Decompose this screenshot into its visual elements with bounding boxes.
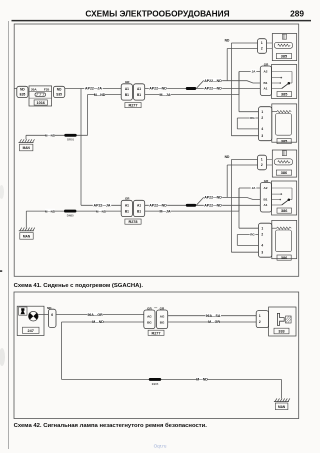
svg-text:M—ND: M—ND <box>92 320 104 324</box>
svg-text:AP22—ND: AP22—ND <box>204 203 222 207</box>
svg-text:2: 2 <box>261 163 263 167</box>
svg-text:B1: B1 <box>137 210 141 214</box>
node AP22 branch vertical to R278 <box>80 89 82 206</box>
left page margin line <box>8 21 10 449</box>
svg-text:M—JA: M—JA <box>159 209 170 213</box>
earth wire M-ND lower into R278 B1 <box>26 210 121 212</box>
heating element unit 385 body <box>272 34 296 61</box>
buckle switch pin box <box>256 311 268 328</box>
svg-text:Схема 41. Сиденье с подогревом: Схема 41. Сиденье с подогревом (SGACHA). <box>14 283 144 289</box>
mat icon <box>282 151 286 156</box>
wire AP22-ND from R277 A1 <box>145 88 261 90</box>
thermo element 385 pin box <box>259 107 272 141</box>
cluster label 247 <box>23 327 40 333</box>
svg-text:MAN: MAN <box>23 146 31 150</box>
heating element unit 385 pin box <box>258 39 267 54</box>
svg-text:СХЕМЫ ЭЛЕКТРООБОРУДОВАНИЯ: СХЕМЫ ЭЛЕКТРООБОРУДОВАНИЯ <box>85 8 229 18</box>
thermo interior resistor <box>276 114 292 136</box>
thermo interior resistor <box>276 230 292 252</box>
vertical ND element to thermo pin 3 <box>230 160 232 253</box>
svg-text:M—ND: M—ND <box>96 209 107 213</box>
wire heating element 385 pin 2 <box>227 48 257 50</box>
svg-text:RG: RG <box>250 233 255 237</box>
svg-text:3: 3 <box>261 250 263 254</box>
instrument cluster 247 body <box>17 306 44 335</box>
splice AP22 lower <box>186 204 196 207</box>
thermo label 385 <box>277 139 291 144</box>
wire AP22-JA fuse output to R277 <box>65 88 121 90</box>
jumper RG pins 2-4 <box>237 117 258 119</box>
splice DR01 <box>64 134 76 137</box>
connector R278 <box>121 200 132 216</box>
svg-text:ND: ND <box>225 155 230 159</box>
wire M-JA from R278 B1 <box>145 210 239 212</box>
switch 386 body <box>272 181 297 215</box>
svg-text:ND: ND <box>20 88 25 92</box>
vertical M-ND down to floor run <box>61 322 63 379</box>
ground MAN lower <box>25 211 27 228</box>
connector R277 (belt lamp) <box>144 310 155 329</box>
vertical pin2 to switch feed <box>226 165 228 197</box>
wire to connector E35 <box>14 88 17 90</box>
branch to switch B1 <box>196 81 260 89</box>
wire to thermo pin 1 <box>239 111 259 113</box>
svg-text:AP22—ND: AP22—ND <box>149 203 167 207</box>
wire ND to heating element 385 pin 1 <box>231 42 257 44</box>
svg-text:A1: A1 <box>264 203 268 207</box>
net JA vertical link top <box>238 72 240 95</box>
wire thermo pin 3 <box>231 251 258 253</box>
thermo element 386 pin box <box>259 223 272 257</box>
wire JA to switch 386 A2 <box>239 187 260 189</box>
svg-text:B1: B1 <box>125 210 129 214</box>
wire M-ND to R277 B1 <box>87 94 121 96</box>
wire to thermo pin 1 <box>239 227 259 229</box>
svg-text:2: 2 <box>261 233 263 237</box>
ground MAN schematic 42 <box>274 401 289 403</box>
wire AP22-JA into R278 A1 <box>81 204 121 206</box>
switch 385 pin box <box>260 66 271 96</box>
mat icon <box>282 34 286 39</box>
svg-text:Схема 42. Сигнальная лампа нез: Схема 42. Сигнальная лампа незастегнутог… <box>14 422 208 429</box>
svg-text:3: 3 <box>261 134 263 138</box>
unit label 386 <box>276 170 291 175</box>
svg-text:A1: A1 <box>125 87 129 91</box>
svg-text:M—ND: M—ND <box>45 133 56 137</box>
connector E35 (ND) <box>17 86 28 97</box>
svg-text:6: 6 <box>51 313 53 317</box>
wire AP22-ND from R278 A1 <box>145 204 261 206</box>
svg-text:DN05: DN05 <box>67 213 74 217</box>
wire 96A-GR to connector R277 <box>56 314 144 316</box>
svg-text:ND: ND <box>57 88 62 92</box>
svg-text:S35: S35 <box>56 92 62 96</box>
heating element unit 386 pin box <box>258 155 267 170</box>
wire heating element 386 pin 2 <box>227 164 257 166</box>
svg-text:AP22—ND: AP22—ND <box>204 87 222 91</box>
svg-text:333: 333 <box>278 330 284 334</box>
wire JA to switch 385 A2 <box>239 71 260 73</box>
vertical to ground MAN <box>280 379 282 398</box>
pin 6 connector <box>48 309 56 327</box>
wire M-JA from R277 B1 <box>145 94 239 96</box>
branch to lower switch B1 <box>196 198 260 206</box>
vertical pin2 to switch feed <box>226 49 228 81</box>
element resistor <box>274 159 292 165</box>
thermo element 385 body <box>272 104 297 142</box>
svg-text:M—ND: M—ND <box>196 378 208 382</box>
switch contacts <box>272 187 293 189</box>
switch 385 body <box>272 65 297 99</box>
svg-text:R277: R277 <box>151 331 160 335</box>
net JA vertical <box>238 188 240 228</box>
svg-text:A1: A1 <box>137 204 141 208</box>
wire lamp to pin 6 <box>38 314 48 316</box>
splice E905 <box>149 378 161 381</box>
svg-text:A1: A1 <box>137 87 141 91</box>
svg-text:247: 247 <box>28 329 34 333</box>
svg-text:M—ND: M—ND <box>45 209 56 213</box>
vertical M-ND down to earth wire <box>86 95 88 136</box>
floor earth run M-ND <box>62 378 282 380</box>
seat belt buckle switch 333 body <box>269 307 296 336</box>
warning lamp symbol <box>29 311 39 321</box>
svg-text:AP22—ND: AP22—ND <box>204 79 222 83</box>
buckle icon <box>277 313 284 325</box>
ground MAN upper <box>25 135 27 139</box>
svg-text:BG: BG <box>147 321 152 325</box>
splice DN05 <box>64 210 76 213</box>
net JA vertical <box>238 72 240 112</box>
svg-text:386: 386 <box>281 256 287 260</box>
svg-text:F35: F35 <box>44 87 50 91</box>
switch label 386 <box>277 208 292 213</box>
schematic 42 frame <box>14 292 299 419</box>
switch contacts <box>272 71 293 73</box>
connector S35 (ND) <box>53 86 64 97</box>
svg-text:1016: 1016 <box>36 101 44 105</box>
switch 386 pin box <box>260 183 271 213</box>
svg-text:RG: RG <box>250 116 255 120</box>
svg-text:2: 2 <box>261 116 263 120</box>
svg-text:96A—SA: 96A—SA <box>206 314 221 318</box>
thermo element 386 body <box>272 220 297 258</box>
svg-text:R277: R277 <box>128 104 137 108</box>
splice AP22 top <box>186 87 196 90</box>
svg-text:1: 1 <box>261 158 263 162</box>
svg-text:A2: A2 <box>264 186 268 190</box>
svg-text:ND: ND <box>225 38 230 42</box>
svg-text:B1: B1 <box>137 93 141 97</box>
svg-text:BG: BG <box>160 321 165 325</box>
svg-text:2: 2 <box>261 47 263 51</box>
svg-text:MAN: MAN <box>278 405 286 409</box>
svg-text:M—JA: M—JA <box>159 93 170 97</box>
wire ND to heating element 386 pin 1 <box>231 159 257 161</box>
svg-text:AP22—JA: AP22—JA <box>94 203 111 207</box>
svg-text:385: 385 <box>281 93 287 97</box>
svg-text:386: 386 <box>281 171 287 175</box>
svg-text:385: 385 <box>281 140 287 144</box>
svg-text:385: 385 <box>281 55 287 59</box>
svg-text:E905: E905 <box>152 382 159 386</box>
buckle label 333 <box>274 328 289 334</box>
svg-text:AP22—ND: AP22—ND <box>204 196 222 200</box>
svg-text:1: 1 <box>261 41 263 45</box>
fuse F35 symbol <box>35 93 46 97</box>
svg-text:A2: A2 <box>264 70 268 74</box>
svg-text:1: 1 <box>261 226 263 230</box>
svg-text:DR01: DR01 <box>67 138 74 142</box>
svg-text:AP22—JA: AP22—JA <box>85 87 102 91</box>
svg-text:AG: AG <box>147 314 152 318</box>
svg-text:289: 289 <box>290 8 304 18</box>
header rule <box>12 20 312 22</box>
earth wire M-ND upper <box>26 134 88 136</box>
fuse box 1016 outline <box>29 86 52 106</box>
svg-text:MAN: MAN <box>23 235 31 239</box>
svg-text:AG: AG <box>160 314 165 318</box>
svg-text:B1: B1 <box>264 198 268 202</box>
svg-text:4: 4 <box>261 127 263 131</box>
switch label 385 <box>277 92 292 97</box>
svg-text:386: 386 <box>281 209 287 213</box>
svg-text:1: 1 <box>259 314 261 318</box>
heating element unit 386 body <box>272 150 296 177</box>
unit label 385 <box>276 54 291 59</box>
svg-text:1: 1 <box>261 110 263 114</box>
svg-text:A1: A1 <box>264 87 268 91</box>
element resistor <box>274 42 292 48</box>
svg-text:Oqr.ru: Oqr.ru <box>154 444 167 449</box>
schematic 41 frame <box>14 24 299 276</box>
svg-text:E35: E35 <box>20 92 26 96</box>
scan artifact left edge <box>0 270 2 272</box>
wire M-ND to connector BG <box>62 321 144 323</box>
svg-text:M—GR: M—GR <box>208 320 220 324</box>
fuse holder label 1016 <box>34 100 47 105</box>
vertical ND element to thermo pin 3 <box>230 43 232 136</box>
wire thermo pin 3 <box>231 135 258 137</box>
svg-text:2: 2 <box>259 320 261 324</box>
seat belt telltale icon box <box>19 307 27 315</box>
svg-text:20A: 20A <box>31 87 37 91</box>
svg-text:B1: B1 <box>125 93 129 97</box>
svg-text:A1: A1 <box>125 204 129 208</box>
svg-text:R278: R278 <box>128 220 137 224</box>
svg-text:96A—GR: 96A—GR <box>87 313 103 317</box>
thermo label 386 <box>277 255 291 260</box>
jumper RG pins 2-4 <box>237 234 258 236</box>
svg-text:M—ND: M—ND <box>94 93 106 97</box>
connector R277 <box>121 84 132 100</box>
svg-text:4: 4 <box>261 244 263 248</box>
wire M-GR to buckle switch <box>168 321 256 323</box>
svg-text:AP22—ND: AP22—ND <box>149 87 167 91</box>
wire 96A-SA to buckle switch <box>168 315 256 317</box>
svg-text:B1: B1 <box>264 81 268 85</box>
net JA vertical link lower <box>238 188 240 211</box>
